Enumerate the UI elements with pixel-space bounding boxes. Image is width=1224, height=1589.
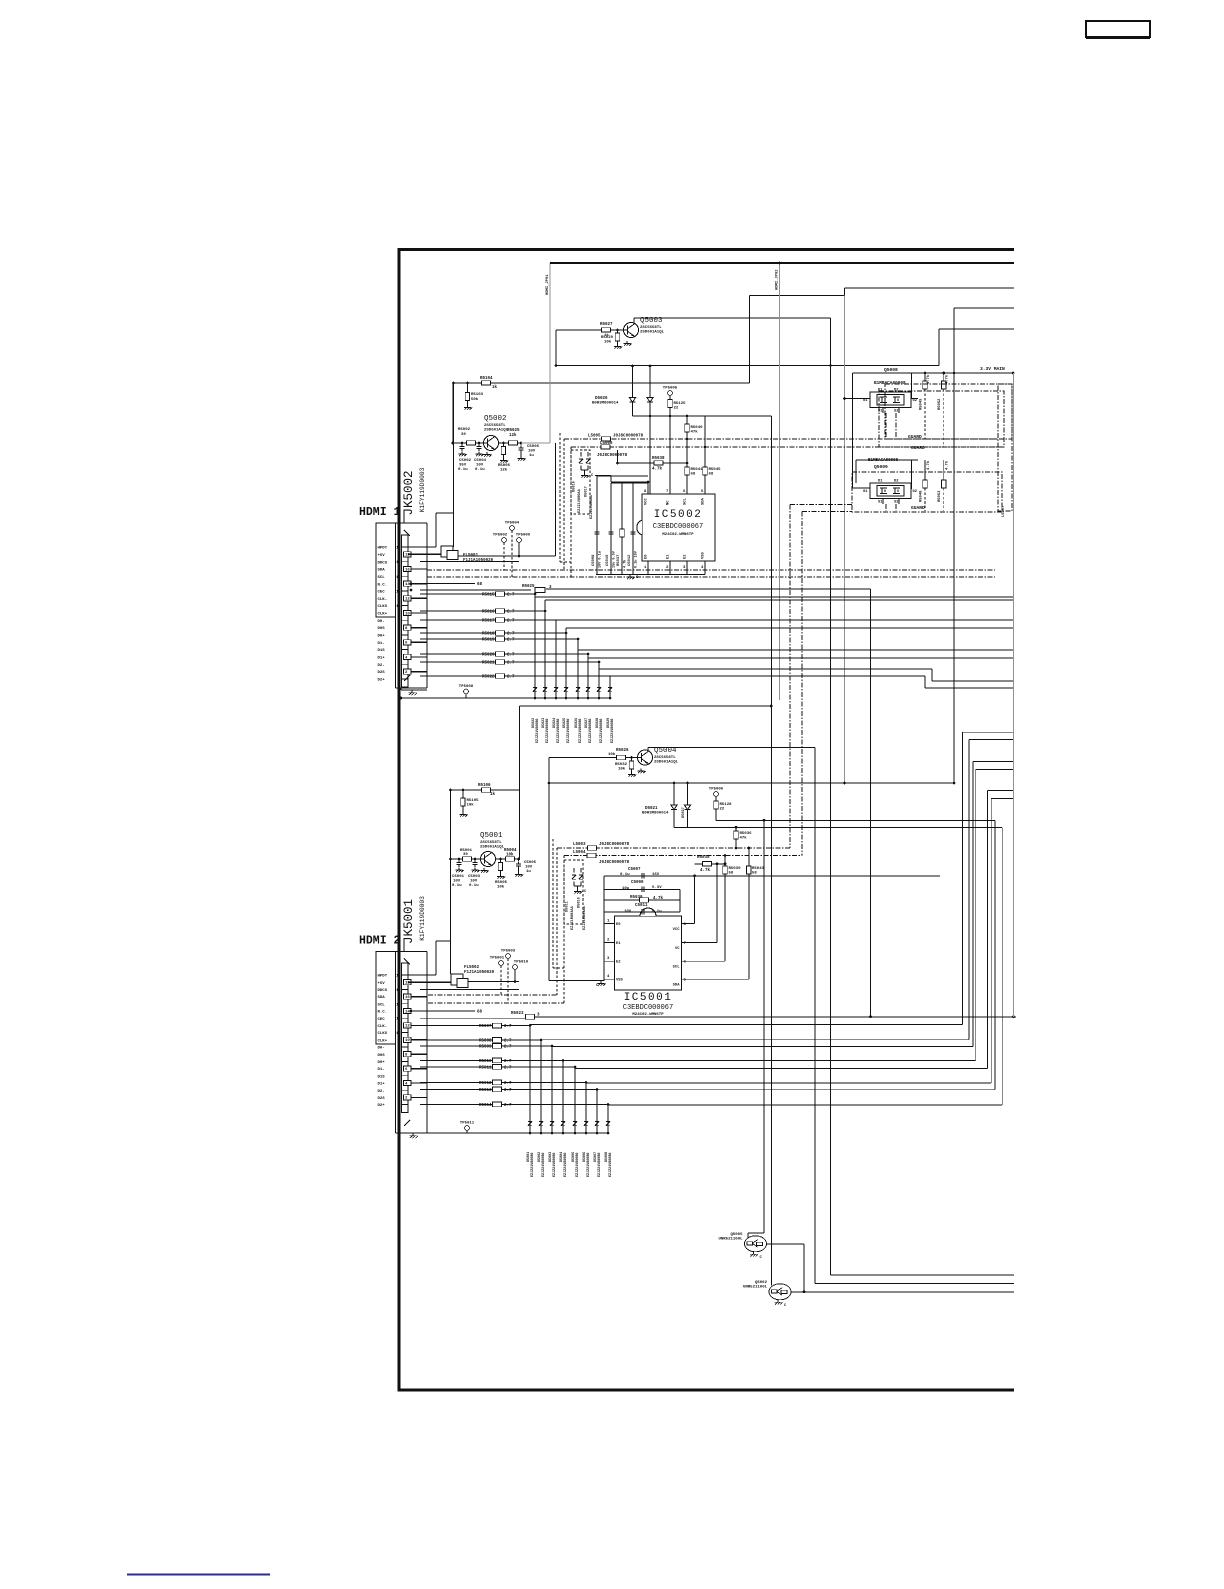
svg-text:12k: 12k [500,468,508,473]
svg-text:C5012: C5012 [628,554,632,566]
svg-text:D1+: D1+ [378,657,386,661]
svg-text:EZJZ21V800B0: EZJZ21V800B0 [546,719,550,743]
test point TP5003 [506,954,511,959]
svg-text:G2: G2 [913,490,918,494]
svg-text:VC: VC [675,947,680,951]
resistor R5026 10k [549,757,638,759]
IC5001 pin 3 E2 [604,960,615,962]
wire staircase R5010 [562,1060,564,1133]
svg-text:HPDT: HPDT [378,975,388,979]
svg-text:EZJZ21V800B0: EZJZ21V800B0 [536,719,540,743]
inductor L5005 [564,438,998,440]
svg-text:C3EBDC000067: C3EBDC000067 [653,523,703,531]
svg-text:10V: 10V [453,880,461,884]
wire long 365 bus [556,365,939,367]
svg-text:R5037: R5037 [617,554,621,566]
IC5002 pin5 riser with R5045 [704,416,706,494]
svg-text:TP5011: TP5011 [460,1122,475,1126]
svg-text:4.7k: 4.7k [652,467,663,472]
svg-text:R5002: R5002 [458,428,471,432]
svg-text:19: 19 [396,975,401,979]
svg-text:1k: 1k [490,792,496,797]
decoupling caps row [597,475,648,477]
svg-text:D0S: D0S [378,627,386,631]
svg-text:R5106: R5106 [478,784,491,788]
svg-text:D2+: D2+ [378,1104,386,1108]
svg-text:2SC5658TL: 2SC5658TL [640,326,662,330]
test point TP5005 [668,391,673,396]
capacitor C5011 row [604,911,680,913]
wire pin14 stub with 68 [420,583,475,585]
svg-text:EZJZ21V800B0: EZJZ21V800B0 [611,719,615,743]
svg-text:12k: 12k [509,433,517,438]
capacitor C5007 row [604,875,940,877]
wire staircase R5015 [534,594,536,698]
wire staircase R5020 [587,654,589,698]
svg-text:+5V: +5V [378,982,386,986]
vertical x815 to bottom pair [814,748,816,1284]
svg-text:R5008: R5008 [479,1039,492,1043]
svg-text:2.7: 2.7 [507,611,515,615]
svg-text:D0S: D0S [378,1054,386,1058]
svg-text:UNR521100L: UNR521100L [743,1285,768,1289]
svg-text:EZJZ21V800B0: EZJZ21V800B0 [609,1153,613,1177]
svg-text:L5004: L5004 [573,851,586,855]
svg-text:N.C.: N.C. [378,583,388,587]
svg-text:E2: E2 [616,961,621,965]
svg-text:R5014: R5014 [479,1104,492,1108]
dash vertical to guard x790 [789,505,791,849]
resistor R5104 1k [454,382,750,384]
ground at Q5003 emitter [626,341,628,344]
test point TP5010 [513,965,518,970]
resistor R5025 12k [499,442,522,444]
svg-text:10k: 10k [618,767,626,772]
svg-text:SCL: SCL [684,497,688,505]
svg-text:16: 16 [405,996,410,1000]
svg-text:R5128: R5128 [720,803,733,807]
vertical x844 gray [844,296,846,784]
svg-text:10u: 10u [622,887,630,891]
svg-text:68: 68 [709,473,714,477]
resistor R5010 2.7 [420,1060,563,1062]
svg-text:4.7k: 4.7k [700,868,711,873]
resistor R5043 58 [748,848,750,979]
wire staircase R5008 [540,1040,542,1133]
svg-text:VSS: VSS [702,551,706,559]
IC5001 pin 1 E0 [604,923,615,925]
svg-text:J0J8C0000078: J0J8C0000078 [613,435,644,439]
svg-text:2.7: 2.7 [507,620,515,624]
svg-text:0.1u: 0.1u [469,884,479,888]
svg-text:CLK+: CLK+ [378,1039,388,1043]
svg-text:E2: E2 [684,554,688,559]
IC IC5002 [642,494,715,561]
wire staircase R5017 [555,620,557,698]
wire Q5008 drain to rail [911,373,913,399]
ground under JK5001 [401,1132,428,1134]
svg-text:E0: E0 [645,554,649,559]
inductor L5006 [571,446,1004,448]
svg-text:EZJZ21V800B0: EZJZ21V800B0 [567,719,571,743]
test point TP5001 [499,961,504,966]
svg-text:R5011: R5011 [479,1066,492,1070]
resistor R5029 10k [617,330,619,333]
wire staircase R5012 [585,1083,587,1134]
wire DDC pin17 lower [420,988,519,990]
resistor R5032 10k [631,758,633,762]
ESD diode D5026 [577,681,579,685]
diodes D5011 D5015 ESD [573,868,575,873]
IC5001 pin 2 E1 [604,941,615,943]
wires Q5009 top [911,460,913,489]
svg-text:R5104: R5104 [480,377,493,381]
svg-text:2SD601A1QL: 2SD601A1QL [654,761,679,765]
svg-text:2SC5658TL: 2SC5658TL [484,424,506,428]
test point TP5009 [517,538,522,543]
svg-text:Q5002: Q5002 [755,1281,768,1285]
test point TP5011 [465,1126,470,1131]
digital transistor Q5005 [745,1236,767,1252]
wire SDA dash-dot [427,569,995,571]
resistor R5015 2.7 [420,593,535,595]
wire Q5003 base riser [555,330,557,366]
svg-text:EZJZ1V800AA: EZJZ1V800AA [578,488,582,513]
wire +5V vertical to FL5001 [453,383,455,547]
svg-text:68: 68 [477,1011,483,1015]
svg-text:10V: 10V [476,464,484,468]
svg-text:JK5002: JK5002 [402,470,416,515]
ESD diode D5003 [551,1115,553,1119]
tall dashed box right [998,384,1012,511]
svg-text:R5025: R5025 [507,429,520,433]
wire staircase R5016 [544,600,546,698]
wire staircase R5013 [596,1090,598,1134]
filter FL5001 [408,553,441,555]
svg-text:10V 0.1u: 10V 0.1u [599,551,603,568]
svg-text:DDCS: DDCS [378,561,388,565]
svg-text:R5049: R5049 [920,398,924,410]
IC5001 left bus and ground [603,876,605,981]
svg-text:C5008: C5008 [592,554,596,566]
svg-text:EZJZ21V800B0: EZJZ21V800B0 [579,719,583,743]
svg-text:TP5005: TP5005 [663,387,678,391]
resistor R5021 2.7 [420,661,599,663]
svg-text:SDA: SDA [702,497,706,505]
capacitor C5006 [520,442,523,445]
svg-text:CLK+: CLK+ [378,613,388,617]
svg-text:10V: 10V [525,866,533,870]
svg-text:D0+: D0+ [378,635,386,639]
resistor R5023 3 on CEC line [420,1017,526,1019]
wire Q5003 collector [633,318,635,324]
svg-text:R5036: R5036 [740,832,753,836]
svg-text:R5004: R5004 [504,849,517,853]
svg-text:HDMI 2: HDMI 2 [359,935,401,948]
svg-text:R5103: R5103 [471,393,484,397]
svg-text:19: 19 [396,547,401,551]
svg-text:SCL: SCL [673,966,681,970]
ESD diode D5005 [574,1115,576,1119]
svg-text:10k: 10k [604,340,612,345]
wire Q5004 collector [647,748,649,752]
resistor R5048 4.7k [924,460,926,480]
resistor R5025 3 on CEC line [420,589,531,591]
svg-text:S1: S1 [878,501,883,505]
vertical x749 R5104 riser [749,296,751,384]
svg-text:J0J8C0000078: J0J8C0000078 [599,843,630,847]
svg-text:CLKS: CLKS [378,605,388,609]
svg-text:SDA: SDA [378,569,386,573]
wire 288-296 jog [750,295,845,297]
svg-text:6.3V: 6.3V [652,886,662,890]
svg-text:CEC: CEC [378,591,386,595]
resistor R5018 2.7 [420,632,566,634]
svg-text:0.1u: 0.1u [475,468,485,472]
svg-text:Q5008: Q5008 [884,367,898,373]
svg-text:2.7: 2.7 [507,654,515,658]
svg-text:SCL: SCL [378,576,386,580]
svg-text:R5020: R5020 [482,653,495,657]
svg-text:S2: S2 [894,501,899,505]
capacitor C5004 [478,444,480,446]
wire staircase R5019 [577,639,579,698]
wire long 783 bus [549,782,954,784]
svg-text:D1-: D1- [378,642,385,646]
svg-text:39: 39 [463,853,468,857]
svg-text:12: 12 [405,598,410,602]
svg-text:GUARD: GUARD [911,505,925,511]
svg-text:S2: S2 [894,410,899,414]
svg-text:EZJZ21V800B0: EZJZ21V800B0 [587,1153,591,1177]
svg-text:EZJZ1R803AA: EZJZ1R803AA [583,905,587,930]
svg-text:IC5001: IC5001 [624,992,673,1004]
svg-text:D5011: D5011 [566,901,570,912]
resistor R5128 22 [715,797,717,802]
svg-text:R5029: R5029 [601,336,614,340]
capacitor C5002 [461,444,463,446]
svg-text:D1+: D1+ [378,1083,386,1087]
svg-text:47k: 47k [691,430,699,435]
svg-text:10k: 10k [506,853,514,858]
wire staircase R5022 [609,676,611,698]
wire IC5002 bottom bus to ground [596,574,705,576]
svg-text:15: 15 [396,576,401,580]
svg-text:SDA: SDA [673,984,681,988]
svg-text:C5001: C5001 [452,875,465,879]
resistor R5052 4.7k [943,373,945,381]
svg-text:R5017: R5017 [482,619,495,623]
resistor R5007 2.7 [420,1025,530,1027]
svg-text:K1FY119D0003: K1FY119D0003 [419,896,426,941]
ground at Q5001 emitter [483,868,485,871]
wire SCL dash-dot [427,576,995,578]
svg-text:15u 5.5V: 15u 5.5V [613,550,617,568]
svg-text:R5023: R5023 [511,1012,524,1016]
svg-text:L5005: L5005 [588,435,601,439]
svg-text:2.7: 2.7 [504,1067,512,1071]
svg-text:EZJZ21V800B0: EZJZ21V800B0 [542,1153,546,1177]
svg-text:TP5001: TP5001 [490,957,505,961]
TMDS ESD array bus upper [401,697,610,699]
svg-text:+5V: +5V [378,554,386,558]
guard box B [879,391,1004,447]
resistor R5006 12k [503,443,505,446]
svg-text:VSS: VSS [616,979,624,983]
svg-text:R5016: R5016 [482,610,495,614]
wire SCL dash-dot lower [428,1002,564,1004]
svg-text:Q5009: Q5009 [874,464,888,470]
ESD diode D5006 [585,1115,587,1119]
svg-text:D0-: D0- [378,620,385,624]
resistor R5049 4.7k [924,373,926,381]
svg-text:2.7: 2.7 [504,1046,512,1050]
wire HPD pin19 upper [408,546,436,548]
svg-text:TP5009: TP5009 [516,534,531,538]
svg-text:10k: 10k [608,752,616,757]
svg-text:EZJZ21V800B0: EZJZ21V800B0 [531,1153,535,1177]
ESD diode D5007 [596,1115,598,1119]
vertical from R5106 down to FL5002 [450,790,452,974]
svg-text:0.1u: 0.1u [458,468,468,472]
ESD diode D5027 [587,681,589,685]
svg-text:F1J1A1050020: F1J1A1050020 [463,559,494,563]
svg-text:GUARD: GUARD [908,434,922,440]
svg-text:EZJZ21V800B0: EZJZ21V800B0 [564,1153,568,1177]
svg-text:17: 17 [396,989,401,993]
svg-text:D2: D2 [894,480,899,484]
svg-text:EZJZ1R803AA: EZJZ1R803AA [571,905,575,930]
svg-text:C5011: C5011 [635,904,648,908]
svg-text:2.7: 2.7 [504,1040,512,1044]
svg-text:C5002: C5002 [459,459,472,463]
svg-text:2.7: 2.7 [504,1104,512,1108]
test point TP5002 [502,538,507,543]
svg-text:2SD601A1QL: 2SD601A1QL [484,429,509,433]
test point TP5004 [510,526,515,531]
IC5001 VCC wire [682,923,695,925]
ESD diode D5008 [607,1115,609,1119]
resistor R5035 4.7k [695,863,725,865]
svg-text:L5007: L5007 [1002,505,1006,517]
svg-text:D5015: D5015 [578,897,582,908]
capacitor C5008 [596,476,598,575]
svg-text:D0+: D0+ [378,1061,386,1065]
svg-text:D5021: D5021 [645,807,658,811]
svg-text:C5009: C5009 [631,881,644,885]
svg-text:0.1u 10V: 0.1u 10V [635,550,639,568]
resistor R5014 2.7 [420,1104,608,1106]
svg-text:R5026: R5026 [616,749,629,753]
svg-text:11: 11 [396,1032,401,1036]
svg-text:R5053: R5053 [938,490,942,502]
svg-text:11: 11 [396,605,401,609]
svg-text:58: 58 [752,872,757,876]
svg-text:R5027: R5027 [600,323,613,327]
svg-text:HDMI_JP01: HDMI_JP01 [546,274,550,295]
svg-text:TP5003: TP5003 [501,950,516,954]
svg-text:D1S: D1S [378,1075,386,1079]
svg-text:JK5001: JK5001 [402,899,416,944]
wire staircase R5011 [574,1067,576,1133]
svg-text:R5048: R5048 [920,490,924,502]
svg-text:58: 58 [729,872,734,876]
svg-text:B1MBACA00008: B1MBACA00008 [874,381,906,386]
wire staircase R5009 [551,1046,553,1133]
svg-text:D5027: D5027 [682,807,686,818]
svg-text:2.7: 2.7 [507,639,515,643]
resistor R5002 [453,442,484,444]
svg-text:4.7k: 4.7k [623,560,628,568]
svg-text:G1: G1 [863,490,868,494]
wire pin8 top bus [611,481,648,483]
resistor R5017 2.7 [420,619,556,621]
svg-text:R5105: R5105 [467,799,480,803]
svg-text:12: 12 [405,1025,410,1029]
svg-text:G2: G2 [913,399,918,403]
svg-text:10V: 10V [528,450,536,454]
svg-text:R5019: R5019 [482,638,495,642]
svg-text:GUARD: GUARD [911,445,925,451]
ESD diode D5001 [529,1115,531,1119]
svg-text:R5010: R5010 [479,1060,492,1064]
wire staircase R5014 [607,1105,609,1134]
ESD diode D5028 [598,681,600,685]
svg-text:R5018: R5018 [482,632,495,636]
svg-text:17: 17 [396,561,401,565]
ground at Q5004 emitter [640,769,642,772]
svg-text:UNR521100L: UNR521100L [718,1237,743,1241]
svg-text:2.7: 2.7 [504,1060,512,1064]
svg-text:Q5002: Q5002 [484,415,507,423]
svg-text:TP5006: TP5006 [709,788,724,792]
wire 329 out [938,329,940,366]
IC5002 pin8 riser [647,482,649,494]
IC5001 VC wire [682,941,718,943]
svg-text:D1S: D1S [378,649,386,653]
dash risers lower [556,848,558,995]
svg-text:L5006: L5006 [600,442,613,446]
svg-text:D1: D1 [878,480,883,484]
svg-text:10k: 10k [497,885,505,890]
svg-text:2.7: 2.7 [507,594,515,598]
IC5002 pin6 riser with R5040/R5041 [686,416,688,494]
svg-text:16: 16 [405,568,410,572]
svg-text:R5035: R5035 [697,856,710,860]
svg-text:2.7: 2.7 [504,1025,512,1029]
svg-text:R5030: R5030 [630,896,643,900]
svg-text:22: 22 [674,407,679,411]
wire box top y706 [520,705,772,707]
svg-text:D2: D2 [894,389,899,393]
wire Q5004 base riser [548,758,550,981]
svg-text:R5041: R5041 [691,468,704,472]
svg-text:K1FY119D0003: K1FY119D0003 [419,467,426,512]
wire DDC pin17 [420,561,519,563]
svg-text:G1: G1 [863,399,868,403]
svg-text:EZJZ21V800B0: EZJZ21V800B0 [589,719,593,743]
test point TP5006 [714,792,719,797]
IC IC5001 [615,916,682,990]
resistor R5036 47k [735,827,737,848]
svg-text:2.7: 2.7 [504,1089,512,1093]
svg-text:F1J1A1050020: F1J1A1050020 [464,971,495,975]
svg-text:10V: 10V [470,880,478,884]
svg-text:2.7: 2.7 [507,662,515,666]
svg-text:10: 10 [405,1039,410,1043]
svg-text:Q5004: Q5004 [654,747,677,755]
svg-text:4.7k: 4.7k [945,374,950,384]
